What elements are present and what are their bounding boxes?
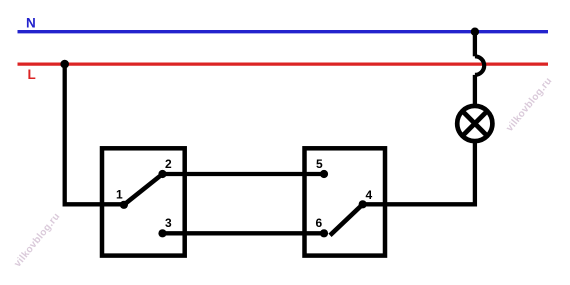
net N (neutral line) xyxy=(18,30,549,33)
svg-text:3: 3 xyxy=(165,216,172,230)
svg-text:N: N xyxy=(26,16,36,31)
svg-text:5: 5 xyxy=(316,157,323,171)
terminal dot 6 xyxy=(320,229,328,237)
switch S2 lever (6 to 4) xyxy=(330,204,363,235)
net L (live line) xyxy=(18,62,549,65)
switch S1 box xyxy=(102,148,185,255)
svg-text:L: L xyxy=(28,67,36,82)
terminal dot 5 xyxy=(320,170,328,178)
svg-text:vilkovblog.ru: vilkovblog.ru xyxy=(504,76,554,134)
svg-text:vilkovblog.ru: vilkovblog.ru xyxy=(12,211,62,269)
wire L to switch S1 terminal 1 xyxy=(65,64,121,204)
svg-text:1: 1 xyxy=(116,188,123,202)
lamp E1 xyxy=(457,106,492,141)
terminal dot 1 xyxy=(120,201,128,209)
switch S1 lever (1 to 2) xyxy=(124,174,163,205)
wire S1 terminal 2 to S2 terminal 5 xyxy=(163,172,325,176)
crossover hop over L xyxy=(475,56,484,75)
wire S2 terminal 4 to lamp xyxy=(363,142,475,204)
wire crossover to N xyxy=(473,32,477,57)
svg-text:2: 2 xyxy=(165,157,172,171)
svg-text:4: 4 xyxy=(366,188,373,202)
svg-text:6: 6 xyxy=(316,216,323,230)
wire lamp to crossover xyxy=(473,75,477,105)
terminal dot 4 xyxy=(359,200,367,208)
switch S2 box xyxy=(305,148,386,255)
junction on L xyxy=(60,60,69,69)
junction on N xyxy=(471,28,479,36)
terminal dot 2 xyxy=(158,170,166,178)
wire S1 terminal 3 to S2 terminal 6 xyxy=(163,231,325,235)
terminal dot 3 xyxy=(158,229,166,237)
